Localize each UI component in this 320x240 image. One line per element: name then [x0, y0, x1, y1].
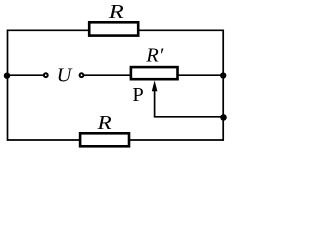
terminal circle right of U — [80, 73, 84, 77]
wire right vertical — [222, 29, 224, 140]
svg-text:R′: R′ — [145, 44, 164, 66]
node left junction — [4, 73, 10, 79]
potentiometer R' — [131, 44, 178, 79]
svg-text:P: P — [132, 84, 143, 106]
terminal circle left of U — [44, 73, 48, 77]
resistor R2 (bottom) — [80, 112, 129, 146]
node wiper junction — [220, 114, 227, 121]
node right middle junction — [220, 72, 226, 78]
wire middle-left segment — [8, 74, 44, 76]
wire wiper horizontal segment — [154, 116, 224, 118]
wire potentiometer right terminal — [178, 74, 223, 76]
wire top-right segment — [139, 29, 224, 31]
resistor R1 (top) — [89, 1, 138, 36]
wire left vertical — [7, 29, 9, 140]
wire bottom-right segment — [129, 139, 224, 141]
wire top-left segment — [8, 29, 91, 31]
wiper arrow of potentiometer — [152, 80, 158, 116]
svg-text:R: R — [96, 112, 112, 134]
svg-text:R: R — [108, 1, 125, 23]
svg-text:U: U — [57, 65, 73, 87]
wire middle-right segment (to potentiometer) — [84, 74, 131, 76]
wire bottom-left segment — [8, 139, 82, 141]
